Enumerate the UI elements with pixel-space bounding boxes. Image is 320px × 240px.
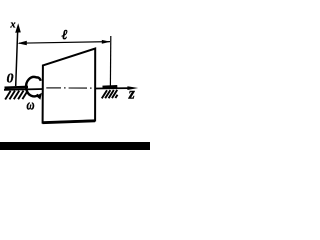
z-axis right segment <box>95 87 129 89</box>
extension line right <box>109 36 111 86</box>
plate bottom edge (thick) <box>42 121 95 123</box>
dimension arrow right <box>102 40 111 44</box>
right bearing top plate <box>103 85 118 88</box>
bottom black bar (scan edge) <box>0 142 150 150</box>
svg-text:x: x <box>9 20 15 31</box>
x-axis line <box>16 27 18 86</box>
x-axis arrowhead <box>15 23 21 32</box>
left bearing top plate <box>5 86 29 90</box>
omega rotation arrow (circular arc) <box>26 77 41 96</box>
z-axis arrowhead <box>127 86 138 90</box>
omega rotation arrowhead <box>36 93 42 100</box>
left bearing hatching <box>5 91 27 100</box>
z-axis left segment <box>4 88 44 91</box>
svg-text:ℓ: ℓ <box>62 27 68 42</box>
dimension arrow left <box>17 41 26 46</box>
svg-text:ω: ω <box>27 96 35 113</box>
svg-text:z: z <box>128 86 135 103</box>
dimension line for l <box>19 42 110 44</box>
plate (trapezoid) outline <box>43 49 96 123</box>
right bearing hatching <box>102 90 118 99</box>
svg-text:0: 0 <box>7 72 14 87</box>
z-axis dash-dot centerline through plate <box>46 87 91 89</box>
